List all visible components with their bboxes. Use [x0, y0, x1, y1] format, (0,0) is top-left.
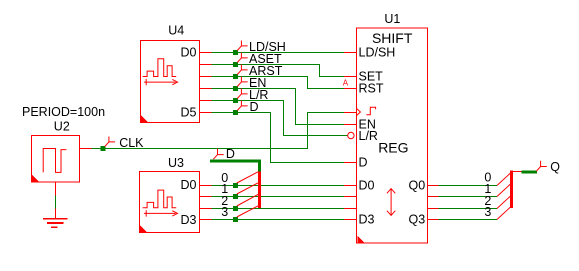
tick L/R label	[237, 89, 247, 99]
svg-text:U1: U1	[384, 12, 400, 26]
bus D horizontal	[210, 161, 260, 172]
tick CLK label	[105, 137, 115, 147]
node row 3 junction	[233, 217, 238, 222]
wire net LD/SH	[211, 52, 343, 54]
L/R inversion bubble	[348, 132, 354, 138]
tick ARST label	[237, 65, 247, 75]
tick EN label	[237, 77, 247, 87]
tick LD/SH label	[237, 41, 247, 51]
svg-text:3: 3	[221, 205, 228, 219]
wire net D (serial)	[211, 113, 343, 163]
wire data row 3	[211, 219, 343, 221]
svg-text:D0: D0	[181, 178, 197, 192]
wire U2 to ground	[55, 182, 57, 218]
wire Q0	[439, 185, 498, 187]
wire Q3	[439, 219, 498, 221]
svg-text:D3: D3	[181, 213, 197, 227]
svg-text:Q0: Q0	[409, 178, 426, 192]
bus Q top corner	[512, 171, 522, 173]
node LD/SH junction	[233, 50, 238, 55]
wire net EN	[211, 89, 343, 125]
svg-text:CLK: CLK	[119, 136, 144, 150]
svg-text:D0: D0	[181, 46, 197, 60]
node row 0 junction	[233, 183, 238, 188]
wire Q2	[439, 208, 498, 210]
svg-text:A: A	[343, 78, 349, 87]
pin stub U2 output	[80, 148, 92, 150]
svg-text:LD/SH: LD/SH	[359, 46, 396, 60]
svg-text:L/R: L/R	[359, 129, 378, 143]
pin stubs U3 D0-D3	[200, 186, 212, 220]
wire net ASET	[211, 65, 343, 77]
wire Q1	[439, 196, 498, 198]
svg-text:D5: D5	[181, 105, 197, 119]
node D junction	[233, 110, 238, 115]
svg-text:D0: D0	[359, 178, 375, 192]
svg-text:PERIOD=100n: PERIOD=100n	[22, 105, 105, 119]
clock pin chevron	[357, 109, 361, 116]
bus entry ramp 2 left	[237, 194, 258, 206]
svg-text:D: D	[226, 147, 235, 161]
svg-text:3: 3	[484, 205, 491, 219]
wire net ARST	[211, 77, 343, 89]
node EN junction	[233, 86, 238, 91]
wire data row 1	[211, 196, 343, 198]
pin stubs U1 right	[428, 186, 439, 220]
node ASET junction	[233, 62, 238, 67]
ground	[43, 219, 67, 228]
svg-text:RST: RST	[359, 82, 384, 96]
svg-text:U2: U2	[54, 119, 70, 133]
node row 2 junction	[233, 206, 238, 211]
digital stimulus U3 body	[140, 172, 200, 233]
svg-text:D: D	[359, 155, 368, 169]
wire data row 2	[211, 208, 343, 210]
svg-text:D3: D3	[359, 212, 375, 226]
svg-text:REG: REG	[378, 139, 408, 155]
node CLK junction	[100, 146, 105, 151]
bus entry ramp 1 left	[237, 183, 258, 194]
tick ASET label	[237, 53, 247, 63]
node L/R junction	[233, 98, 238, 103]
node row 1 junction	[233, 194, 238, 199]
clock source U2 body	[32, 136, 80, 183]
shift register U1 body	[357, 28, 428, 243]
svg-text:D: D	[250, 100, 259, 114]
tick Q label	[537, 161, 547, 171]
bus D vertical bar	[258, 172, 261, 209]
bus entry ramp 3 left	[237, 206, 258, 217]
svg-text:Q: Q	[550, 160, 560, 174]
clock edge icon	[366, 107, 375, 115]
bus Q vertical bar	[510, 170, 513, 208]
node ARST junction	[233, 74, 238, 79]
pin stubs U4 D0-D5	[200, 53, 212, 113]
bus entry ramp 2 right	[497, 196, 511, 209]
wire net L/R	[211, 101, 347, 136]
shift direction arrow	[387, 189, 395, 216]
svg-text:U3: U3	[168, 156, 184, 170]
bus entry ramp 3 right	[497, 207, 511, 220]
tick bus D label	[213, 149, 223, 160]
bus entry ramp 0 right	[497, 173, 511, 186]
tick D label	[237, 101, 247, 111]
wire net CLK	[91, 113, 343, 149]
pin stubs U1 left	[344, 53, 357, 220]
svg-text:U4: U4	[168, 24, 184, 38]
svg-text:Q3: Q3	[409, 212, 426, 226]
bus entry ramp 0 left	[237, 172, 258, 183]
digital stimulus U4 body	[141, 41, 200, 123]
bus Q horizontal segment	[522, 171, 538, 174]
wire data row 0	[211, 185, 343, 187]
svg-text:SHIFT: SHIFT	[372, 30, 413, 46]
bus entry ramp 1 right	[497, 184, 511, 197]
